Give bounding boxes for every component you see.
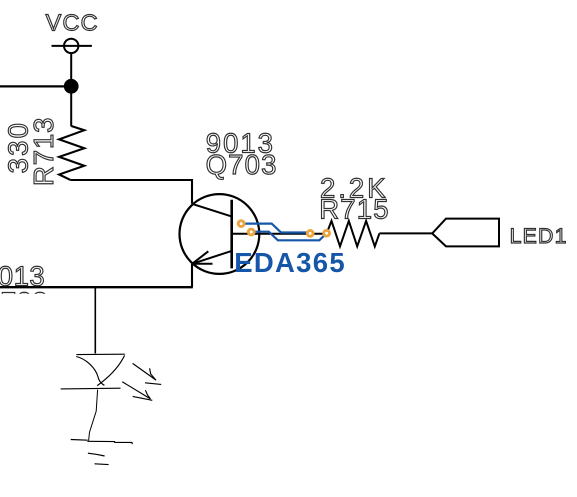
svg-text:R715: R715 — [319, 194, 390, 225]
svg-text:LED1: LED1 — [510, 224, 568, 248]
transistor Q703 base bar — [230, 200, 233, 269]
wire base to R715 — [232, 233, 327, 235]
watermark EDA365 trace upper — [244, 224, 307, 233]
wire junction to R713 — [70, 86, 72, 126]
resistor R715 zigzag — [327, 221, 380, 247]
wire horizontal to left edge — [0, 85, 71, 87]
watermark EDA365 trace lower — [251, 232, 326, 241]
wire down to LED — [94, 287, 96, 354]
watermark pad 3 — [307, 231, 313, 237]
wire R713 bottom to collector corner — [70, 180, 192, 204]
watermark pad 4 — [324, 230, 330, 236]
wire LED cathode to ground (sketched) — [89, 390, 98, 441]
wire emitter down — [191, 264, 193, 287]
LED light arrow 2 (sketched) — [122, 382, 152, 401]
ground symbol (sketched) — [71, 440, 133, 465]
svg-text:9013: 9013 — [0, 261, 45, 292]
wire R715 to connector — [379, 232, 432, 234]
resistor R713 zigzag — [59, 126, 84, 180]
transistor Q703 emitter line with arrow — [192, 251, 232, 264]
transistor Q703 circle — [180, 194, 260, 274]
junction dot — [64, 79, 79, 94]
svg-text:EDA365: EDA365 — [234, 247, 346, 278]
LED light arrow 1 (sketched) — [133, 363, 162, 384]
power symbol VCC (circle with bar) — [52, 39, 92, 53]
watermark pad 1 — [238, 221, 244, 227]
wire VCC stem — [70, 53, 72, 80]
transistor Q703 collector line — [192, 204, 232, 217]
svg-text:R713: R713 — [28, 117, 59, 186]
LED diode (hand sketched) — [61, 354, 125, 389]
label Q703 partially hidden at left edge — [0, 286, 48, 317]
wire bottom horizontal to left edge — [0, 286, 193, 288]
connector LED1 symbol — [432, 219, 499, 247]
watermark pad 2 — [248, 229, 254, 235]
svg-text:Q703: Q703 — [206, 149, 278, 180]
svg-text:VCC: VCC — [46, 10, 99, 36]
